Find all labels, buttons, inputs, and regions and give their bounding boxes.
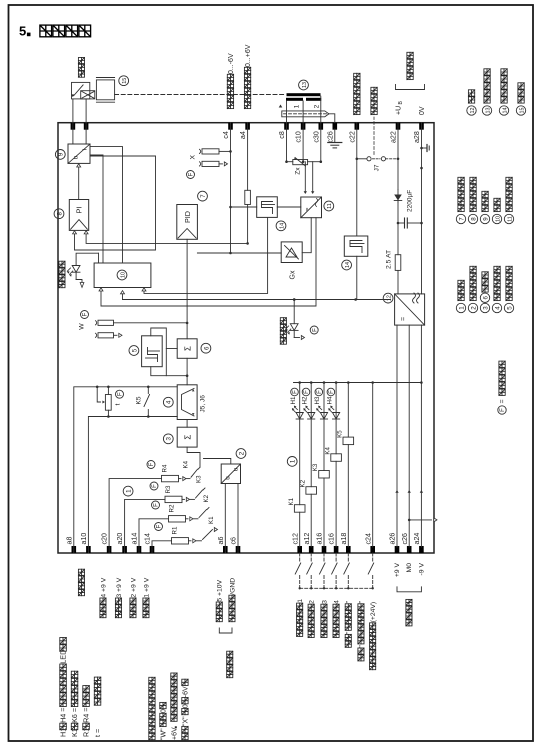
svg-text:+U: +U — [396, 106, 403, 115]
wire U9 out pin1 — [72, 123, 74, 144]
bracket differential input — [219, 628, 232, 633]
svg-text:c20: c20 — [101, 533, 109, 544]
svg-text:PI: PI — [75, 206, 84, 213]
svg-text:+9 V: +9 V — [394, 563, 401, 578]
wire c22 enable row — [356, 123, 358, 236]
label reference voltage GND — [229, 616, 235, 622]
svg-text:2: 2 — [470, 306, 477, 310]
terminal a14 — [137, 546, 142, 553]
note line 1 — [149, 733, 155, 739]
label working voltage — [407, 73, 413, 79]
wire U14b to enable rail — [356, 256, 358, 299]
legend item 4 — [492, 303, 501, 312]
svg-text:5: 5 — [131, 348, 138, 352]
svg-text:M0: M0 — [406, 563, 413, 573]
svg-text:a28: a28 — [413, 131, 421, 143]
terminal c26 — [333, 123, 338, 130]
svg-text:6: 6 — [482, 296, 489, 300]
svg-text:3: 3 — [482, 306, 489, 310]
svg-text:c12: c12 — [291, 533, 299, 544]
wire c10 line to demodulator — [302, 123, 304, 162]
svg-text:0...-6V: 0...-6V — [228, 53, 235, 74]
svg-text:t: t — [115, 404, 122, 406]
summer box U3 — [177, 427, 197, 447]
wire U9 feedback down to monitor — [90, 147, 123, 263]
wire X jack to c4 line — [219, 150, 231, 152]
wire c30 to winding bottom — [320, 96, 322, 123]
svg-text:(+24V): (+24V) — [370, 602, 377, 623]
legend item 13 — [482, 106, 491, 115]
svg-text:4: 4 — [166, 400, 173, 404]
wire a20 to R3 — [125, 499, 165, 553]
circled 11 — [324, 201, 334, 211]
terminal c8 — [284, 123, 289, 130]
terminal c16 — [334, 546, 339, 553]
switch K5 (ramp rail) — [147, 387, 149, 394]
potentiometer R4 — [162, 475, 179, 481]
dashed start switch row 336.1 — [335, 553, 337, 563]
svg-text:=: = — [304, 207, 311, 211]
svg-text:W: W — [79, 323, 86, 330]
label start ramp-off — [345, 641, 351, 647]
wire c14 to R1 — [152, 541, 172, 553]
label setpoint4 +9V — [100, 612, 106, 618]
svg-text:K4: K4 — [183, 460, 190, 468]
diode on a22 — [397, 190, 399, 203]
circled 1 setpoints — [123, 486, 133, 496]
svg-text:12: 12 — [470, 108, 476, 114]
F circle H1 — [291, 388, 299, 396]
node c4 to PID/Gx — [197, 252, 281, 254]
svg-text:K5: K5 — [337, 430, 344, 438]
wire U9 out pin2 — [85, 123, 87, 144]
LED supply rail to a24 — [294, 382, 422, 384]
circled 5 — [129, 346, 139, 356]
svg-text:c4: c4 — [222, 131, 230, 139]
label differential input — [227, 672, 233, 678]
svg-text:X: X — [190, 154, 197, 159]
svg-text:=: = — [401, 317, 408, 321]
svg-text:a16: a16 — [316, 533, 324, 545]
svg-text:F: F — [312, 328, 318, 332]
op-amp box U9 output stage u/i — [68, 144, 90, 163]
legend item 1 — [456, 303, 465, 312]
svg-text:c26: c26 — [401, 533, 409, 544]
electromagnet (proportional solenoid) — [72, 82, 90, 99]
svg-text:a10: a10 — [80, 533, 88, 545]
svg-text:K1: K1 — [288, 497, 295, 505]
legend item 3/6 — [480, 303, 489, 312]
wire solenoid pin1 — [72, 99, 74, 123]
F circle H4 — [327, 388, 335, 396]
legend item 2 — [468, 303, 477, 312]
svg-text:K2: K2 — [203, 494, 210, 502]
svg-text:10: 10 — [495, 216, 501, 222]
svg-text:0: 0 — [161, 709, 168, 713]
potentiometer t — [105, 395, 111, 411]
wire chain U4 to U6 — [186, 358, 188, 385]
svg-text:F: F — [189, 172, 195, 176]
potentiometer R1 — [172, 538, 189, 544]
title 5 principle block diagram — [19, 24, 91, 39]
svg-text:R4: R4 — [162, 464, 169, 472]
terminal c10 — [301, 123, 306, 130]
label output enable — [280, 338, 286, 344]
F circle output enable — [310, 326, 318, 334]
svg-text:F: F — [304, 390, 310, 394]
dashed start switch row 324.0 — [323, 553, 325, 563]
relay coil K1 — [299, 512, 301, 547]
svg-text:1 +9 V: 1 +9 V — [143, 577, 150, 597]
chassis ground on c26 — [334, 129, 336, 143]
F circle R4 — [147, 461, 155, 469]
wire U9 current loop to PI input 1 — [75, 156, 156, 250]
svg-text:K3: K3 — [312, 463, 319, 471]
terminal a10 — [86, 546, 91, 553]
circled 1 relays — [287, 457, 297, 467]
terminal a6 — [223, 546, 228, 553]
jumper J7 — [357, 158, 367, 160]
svg-text:u: u — [233, 467, 240, 471]
svg-text:13: 13 — [302, 82, 308, 88]
svg-text:F: F — [293, 390, 299, 394]
svg-text:H1: H1 — [290, 396, 297, 404]
svg-text:5 +10V: 5 +10V — [217, 579, 224, 601]
svg-text:H4: H4 — [326, 396, 333, 404]
legend item 15 — [516, 106, 525, 115]
switch K2 — [194, 518, 199, 520]
circled 8 — [54, 209, 64, 219]
svg-text:c10: c10 — [295, 131, 303, 142]
svg-text:H4 =: H4 = — [59, 708, 68, 723]
legend item 5 — [504, 303, 513, 312]
svg-text:9: 9 — [482, 217, 489, 221]
terminal c26 (ref) — [407, 546, 412, 553]
ramp generator box U4 J5 J6 — [177, 385, 197, 420]
svg-text:a8: a8 — [65, 537, 73, 545]
legend item 11 — [504, 214, 513, 223]
terminal a22 — [396, 123, 401, 130]
impedance Zx — [287, 161, 293, 163]
wire U2 output to summing bus — [204, 459, 231, 465]
F circle H2 — [302, 388, 310, 396]
wire a22 +UB rail — [397, 123, 399, 190]
label ready state — [59, 282, 65, 288]
LED H4 — [333, 413, 340, 420]
wire U14a output to monitor — [144, 217, 268, 293]
svg-text:c26: c26 — [326, 131, 334, 142]
svg-text:a6: a6 — [217, 537, 225, 545]
output enable LED — [293, 300, 295, 324]
wire c26 to LVDT core — [329, 114, 335, 123]
F circle R2 — [152, 501, 160, 509]
label setpoint1 +9V — [143, 612, 149, 618]
controller box U8 PI — [69, 200, 88, 231]
label external ramp — [78, 590, 84, 596]
svg-text:F: F — [157, 524, 163, 528]
circled 12 — [383, 293, 393, 303]
svg-text:R3: R3 — [165, 485, 172, 493]
card outline (amplifier board boundary) — [58, 123, 434, 553]
svg-text:PID: PID — [183, 211, 192, 223]
svg-text:5: 5 — [506, 306, 513, 310]
dashed J7 to +UB — [386, 158, 398, 160]
circled 3 — [163, 434, 173, 444]
wire U14a to demodulator — [277, 206, 301, 208]
circled 10 inside monitor — [117, 270, 127, 280]
svg-text:F: F — [154, 503, 160, 507]
svg-text:F: F — [329, 390, 335, 394]
circled 6 — [201, 343, 211, 353]
terminal a8 — [72, 546, 77, 553]
svg-text:F: F — [149, 462, 155, 466]
label reference voltage — [406, 620, 412, 626]
svg-text:F: F — [118, 392, 124, 396]
svg-text:a24: a24 — [413, 533, 421, 545]
demodulator inputs — [304, 162, 306, 191]
svg-text:i: i — [82, 149, 89, 150]
wire a4 feedback to PI input 2 — [86, 233, 248, 243]
F circle at W — [81, 311, 89, 319]
circled 14b — [342, 260, 352, 270]
wire Gx to demodulator — [302, 218, 311, 253]
circled 14a — [276, 221, 286, 231]
svg-text:3: 3 — [321, 600, 328, 604]
dashed start switch row 311.2 — [310, 553, 312, 563]
svg-text:15: 15 — [122, 78, 128, 84]
svg-text:5: 5 — [19, 24, 26, 39]
svg-text:R2: R2 — [169, 504, 176, 512]
wire c8 line into card — [286, 123, 288, 162]
LED H2 — [308, 413, 315, 420]
legend item 7 — [456, 214, 465, 223]
svg-text:0V: 0V — [419, 106, 426, 115]
svg-text:2 +9 V: 2 +9 V — [130, 577, 137, 597]
svg-text:F: F — [317, 390, 323, 394]
svg-text:1: 1 — [458, 306, 465, 310]
svg-text:3: 3 — [166, 437, 173, 441]
svg-text:a12: a12 — [303, 533, 311, 545]
svg-text:4: 4 — [334, 600, 341, 604]
svg-text:9: 9 — [58, 152, 65, 156]
label start aux supply — [358, 655, 364, 661]
ready-state LED — [98, 253, 100, 263]
terminal a4 — [245, 123, 250, 130]
wire U9 second feedback to monitor — [90, 155, 103, 263]
wire a6 to U2 — [224, 484, 226, 554]
wire a10 external ramp — [88, 417, 177, 554]
F circle at X — [187, 171, 195, 179]
relay coil K3 — [323, 478, 325, 547]
svg-text:c14: c14 — [144, 533, 152, 544]
terminal c20 — [107, 546, 112, 553]
wire c26 M0 — [408, 325, 410, 547]
label start setpoint 2 — [308, 631, 314, 637]
relay coil K4 — [335, 461, 337, 547]
svg-text:6: 6 — [203, 346, 210, 350]
terminal c24 — [370, 546, 375, 553]
svg-text:u: u — [73, 155, 80, 159]
terminal a28 — [419, 123, 424, 130]
svg-text:4 +9 V: 4 +9 V — [100, 577, 107, 597]
svg-text:t =: t = — [93, 729, 102, 737]
terminal c12 — [297, 546, 302, 553]
label start setpoint 4 — [333, 631, 339, 637]
test jack X pair — [202, 149, 219, 154]
signal arrows on reference rows — [395, 490, 398, 493]
svg-text:F: F — [83, 312, 89, 316]
wire c8 to secondary top — [286, 101, 288, 123]
svg-text:K5: K5 — [136, 396, 143, 404]
svg-text:12: 12 — [387, 295, 393, 301]
bracket reference voltage — [397, 587, 421, 592]
label setpoint5 +10V — [216, 616, 222, 622]
svg-text:7: 7 — [458, 217, 465, 221]
svg-text:a20: a20 — [116, 533, 124, 545]
svg-text:K6 =: K6 = — [70, 708, 79, 723]
svg-text:+6V: +6V — [172, 727, 179, 740]
step generator box U5 — [142, 336, 163, 367]
relay coil K2 — [310, 494, 312, 547]
wire solenoid pin2 — [85, 99, 87, 123]
label start setpoint 1 — [297, 630, 303, 636]
svg-text:H3: H3 — [314, 396, 321, 404]
svg-text:15: 15 — [519, 108, 525, 114]
svg-text:K1: K1 — [208, 516, 215, 524]
svg-text:Σ: Σ — [184, 435, 193, 440]
capacitor 2200uF — [398, 222, 405, 224]
wire a22 diode to fuse — [397, 202, 399, 255]
working voltage bracket — [396, 85, 425, 90]
switch K1 — [197, 540, 202, 542]
wire W jack taps command — [114, 322, 188, 324]
power supply box U12 — [395, 294, 425, 325]
monitor box U10 — [94, 263, 151, 288]
svg-text:u: u — [225, 476, 232, 480]
terminal a16 — [322, 546, 327, 553]
svg-text:F: F — [152, 484, 158, 488]
wire c20 to R4 — [109, 479, 161, 553]
wire c10 to secondary centre tap — [302, 101, 304, 123]
terminal c30 — [319, 123, 324, 130]
LED H3 — [320, 413, 327, 420]
svg-text:a14: a14 — [131, 533, 139, 545]
svg-text:K2: K2 — [299, 479, 306, 487]
circled 13 — [299, 80, 309, 90]
enable rail — [123, 299, 357, 301]
wire a26 +9V — [396, 325, 398, 547]
LVDT secondary winding bars — [286, 98, 303, 101]
svg-text:a4: a4 — [239, 131, 247, 139]
wire a8 external rail — [74, 387, 177, 553]
dashed start switch row 372.7 — [372, 553, 374, 563]
svg-text:13: 13 — [485, 108, 491, 114]
svg-text:c8: c8 — [278, 131, 286, 139]
svg-text:11: 11 — [327, 203, 333, 209]
svg-text:14: 14 — [279, 223, 285, 229]
fuse 2.5 AT — [395, 255, 401, 271]
wire a28 0V rail — [421, 123, 423, 294]
svg-text:0...+6V: 0...+6V — [245, 44, 252, 67]
svg-text:1: 1 — [294, 104, 301, 108]
svg-text:"X": "X" — [183, 716, 190, 726]
legend item 14 — [499, 106, 508, 115]
enable rail — [250, 299, 391, 301]
wire U6 to PID — [186, 239, 188, 339]
level converter box U14b — [344, 236, 368, 256]
label internal enable — [371, 108, 377, 114]
terminal a12 — [309, 546, 314, 553]
svg-text:1: 1 — [126, 489, 133, 493]
bypass wire to U5 — [151, 367, 187, 376]
summer box U6 — [177, 339, 197, 359]
setpoint bus into U3 — [211, 530, 213, 532]
F circle at t — [116, 390, 124, 398]
svg-text:c24: c24 — [364, 533, 372, 544]
potentiometer R3 — [165, 496, 182, 502]
svg-text:7: 7 — [200, 194, 207, 198]
svg-text:/GND: /GND — [229, 578, 236, 595]
svg-text:Zx: Zx — [295, 167, 302, 175]
wire fuse to power supply U12 — [397, 270, 399, 294]
note line 4 — [182, 733, 188, 739]
arrow below W jack — [114, 334, 118, 336]
LVDT core (movable) — [282, 111, 329, 117]
LVDT primary winding bar — [287, 93, 321, 96]
svg-text:14: 14 — [345, 262, 351, 268]
svg-text:0: 0 — [183, 704, 190, 708]
controller box U7 PID — [177, 205, 198, 240]
terminal c22 — [355, 123, 360, 130]
svg-text:1: 1 — [297, 599, 304, 603]
potentiometer R2 — [169, 516, 186, 522]
M0 stub arrow — [409, 519, 431, 521]
svg-text:11: 11 — [507, 216, 513, 222]
demodulator box U11 — [301, 197, 322, 218]
oscillator Gx box — [281, 242, 302, 263]
svg-text:c6: c6 — [230, 537, 238, 545]
svg-text:14: 14 — [502, 108, 508, 114]
svg-text:8: 8 — [470, 217, 477, 221]
wire U3 to U4 — [186, 420, 188, 428]
terminal a26 — [395, 546, 400, 553]
svg-text:10: 10 — [120, 272, 126, 278]
mechanical feedback dashed link — [115, 94, 285, 96]
svg-text:=: = — [500, 399, 507, 403]
label actual position value 0...-6V — [227, 102, 233, 108]
valve U15 body — [96, 80, 114, 100]
circled 7 — [198, 191, 208, 201]
terminal c4 — [228, 123, 233, 130]
resistor on a4 row — [247, 123, 249, 191]
terminal c14 — [150, 546, 155, 553]
F circle H3 — [315, 388, 323, 396]
svg-text:c30: c30 — [312, 131, 320, 142]
F circle R1 — [155, 523, 163, 531]
wire demod up to c4 row — [231, 206, 257, 208]
svg-text:Σ: Σ — [184, 346, 193, 351]
svg-text:c16: c16 — [328, 533, 336, 544]
F circle R3 — [150, 482, 158, 490]
svg-text:R1: R1 — [172, 526, 179, 534]
label setpoint after ramp 0...+6V — [244, 102, 250, 108]
svg-text:-9 V: -9 V — [418, 563, 425, 576]
svg-text:K3: K3 — [196, 475, 203, 483]
test jack W pair — [98, 320, 114, 325]
terminal a18 — [346, 546, 351, 553]
svg-text:Gx: Gx — [290, 270, 297, 279]
svg-text:-6V: -6V — [183, 686, 190, 697]
